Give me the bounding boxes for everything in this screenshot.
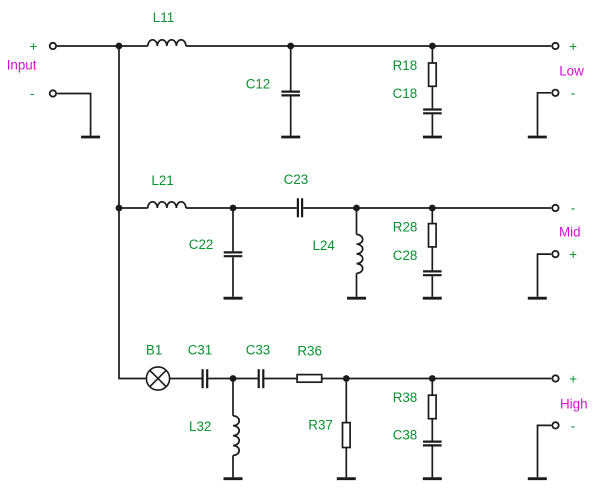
- capacitor C38: [423, 441, 442, 443]
- svg-text:-: -: [30, 86, 34, 101]
- wire High- to ground: [538, 425, 552, 477]
- ground C28: [423, 297, 442, 300]
- svg-text:+: +: [569, 371, 577, 386]
- wire R36 to R37 node: [322, 378, 347, 380]
- svg-text:L21: L21: [151, 173, 173, 188]
- capacitor C28: [423, 270, 442, 272]
- lamp B1: [146, 367, 169, 390]
- inductor L24: [357, 235, 363, 274]
- ground L32: [224, 477, 243, 480]
- node C22 top: [230, 205, 237, 212]
- svg-text:C38: C38: [393, 428, 418, 443]
- inductor L21: [148, 202, 186, 208]
- svg-text:B1: B1: [146, 343, 162, 358]
- wire B1 to C31: [170, 378, 201, 380]
- wire Low- to ground: [538, 93, 552, 136]
- svg-text:C33: C33: [246, 343, 271, 358]
- wire C22 lead top: [232, 208, 234, 251]
- wire R18 node to Low+ terminal: [432, 45, 551, 47]
- wire C31 to L32 node: [208, 378, 233, 380]
- node R18 top: [429, 43, 436, 50]
- svg-text:L32: L32: [189, 419, 211, 434]
- wire C18 lead bottom: [431, 114, 433, 135]
- resistor R37: [343, 423, 351, 448]
- node R28 top: [429, 205, 436, 212]
- svg-text:C23: C23: [284, 172, 309, 187]
- ground Mid: [528, 297, 547, 300]
- capacitor C33: [258, 369, 260, 388]
- svg-text:R18: R18: [393, 58, 418, 73]
- wire L32 node to C33: [233, 378, 258, 380]
- wire R28 lead top: [431, 208, 433, 224]
- svg-text:C22: C22: [189, 237, 214, 252]
- capacitor C31: [202, 369, 204, 388]
- ground R37: [337, 477, 356, 480]
- svg-text:Input: Input: [7, 57, 37, 72]
- wire C22 node to C23: [233, 207, 297, 209]
- svg-text:High: High: [560, 396, 588, 411]
- svg-text:+: +: [30, 39, 38, 54]
- capacitor C23: [297, 198, 299, 217]
- svg-text:R37: R37: [308, 417, 333, 432]
- wire input+ to bus junction: [57, 45, 148, 47]
- svg-text:Mid: Mid: [559, 225, 581, 240]
- wire C12 lead bottom: [290, 97, 292, 136]
- ground C38: [423, 477, 442, 480]
- ground High: [528, 477, 547, 480]
- wire L32 lead bottom: [232, 455, 234, 477]
- wire R28 node to Mid- terminal: [432, 207, 551, 209]
- capacitor C22: [224, 251, 243, 253]
- svg-text:+: +: [569, 247, 577, 262]
- svg-text:L24: L24: [313, 238, 336, 253]
- wire bus to L21: [119, 207, 148, 209]
- ground C22: [224, 297, 243, 300]
- node bus/mid-row junction: [116, 205, 123, 212]
- wire R37 lead bottom: [345, 448, 347, 478]
- svg-text:+: +: [569, 39, 577, 54]
- svg-text:C18: C18: [393, 86, 418, 101]
- wire L21 to C22 node: [186, 207, 233, 209]
- ground L24: [347, 297, 366, 300]
- wire R18 lead top: [431, 46, 433, 63]
- resistor R38: [429, 395, 437, 419]
- node bus/top-row junction: [116, 43, 123, 50]
- ground Low: [528, 136, 547, 139]
- wire R37 lead top: [345, 379, 347, 423]
- svg-text:C28: C28: [393, 248, 418, 263]
- svg-text:L11: L11: [153, 10, 174, 25]
- wire C23 to L24 node: [303, 207, 356, 209]
- wire R38 lead top: [431, 379, 433, 396]
- ground C18: [423, 136, 442, 139]
- capacitor C12: [281, 90, 300, 92]
- wire C22 lead bottom: [232, 257, 234, 297]
- svg-text:-: -: [571, 86, 575, 101]
- terminal High +: [552, 375, 558, 381]
- capacitor C18: [423, 108, 442, 110]
- ground C12: [281, 136, 300, 139]
- wire L24 lead top: [356, 208, 358, 235]
- node R37 top: [343, 375, 350, 382]
- wire C38 lead bottom: [431, 447, 433, 478]
- terminal Input +: [50, 43, 56, 49]
- node R38 top: [429, 375, 436, 382]
- wire C28 lead bottom: [431, 276, 433, 297]
- svg-text:R36: R36: [297, 344, 322, 359]
- svg-text:-: -: [571, 419, 575, 434]
- resistor R36: [297, 375, 322, 383]
- wire R28 to C28: [431, 247, 433, 270]
- resistor R28: [429, 224, 437, 247]
- svg-text:R28: R28: [393, 219, 418, 234]
- wire C33 to R36: [264, 378, 297, 380]
- terminal High -: [552, 422, 558, 428]
- wire C12 node to R18 node: [291, 45, 433, 47]
- svg-text:C31: C31: [188, 343, 213, 358]
- node L24 top: [353, 205, 360, 212]
- wire R38 to C38: [431, 419, 433, 441]
- wire R18 to C18: [431, 86, 433, 108]
- node C12 top: [287, 43, 294, 50]
- inductor L11: [148, 40, 186, 46]
- wire Mid+ to ground: [538, 254, 552, 297]
- terminal Mid +: [552, 251, 558, 257]
- svg-text:-: -: [571, 201, 575, 216]
- ground input: [81, 136, 100, 139]
- wire L24 node to R28 node: [357, 207, 433, 209]
- resistor R18: [429, 63, 437, 86]
- svg-text:Low: Low: [559, 64, 584, 79]
- wire C12 lead top: [290, 46, 292, 91]
- wire L24 lead bottom: [356, 273, 358, 297]
- terminal Low +: [552, 43, 558, 49]
- inductor L32: [233, 416, 239, 456]
- wire L32 lead top: [232, 379, 234, 416]
- wire input- to ground: [57, 94, 90, 136]
- terminal Low -: [552, 90, 558, 96]
- wire R37 node to R38 node: [346, 378, 432, 380]
- terminal Mid -: [552, 205, 558, 211]
- svg-text:R38: R38: [393, 390, 418, 405]
- wire L11 to C12 node: [186, 45, 291, 47]
- svg-text:C12: C12: [246, 76, 271, 91]
- terminal Input -: [50, 90, 56, 96]
- wire R38 node to High+ terminal: [432, 378, 551, 380]
- node L32 top: [230, 375, 237, 382]
- wire main bus vertical: [119, 46, 146, 379]
